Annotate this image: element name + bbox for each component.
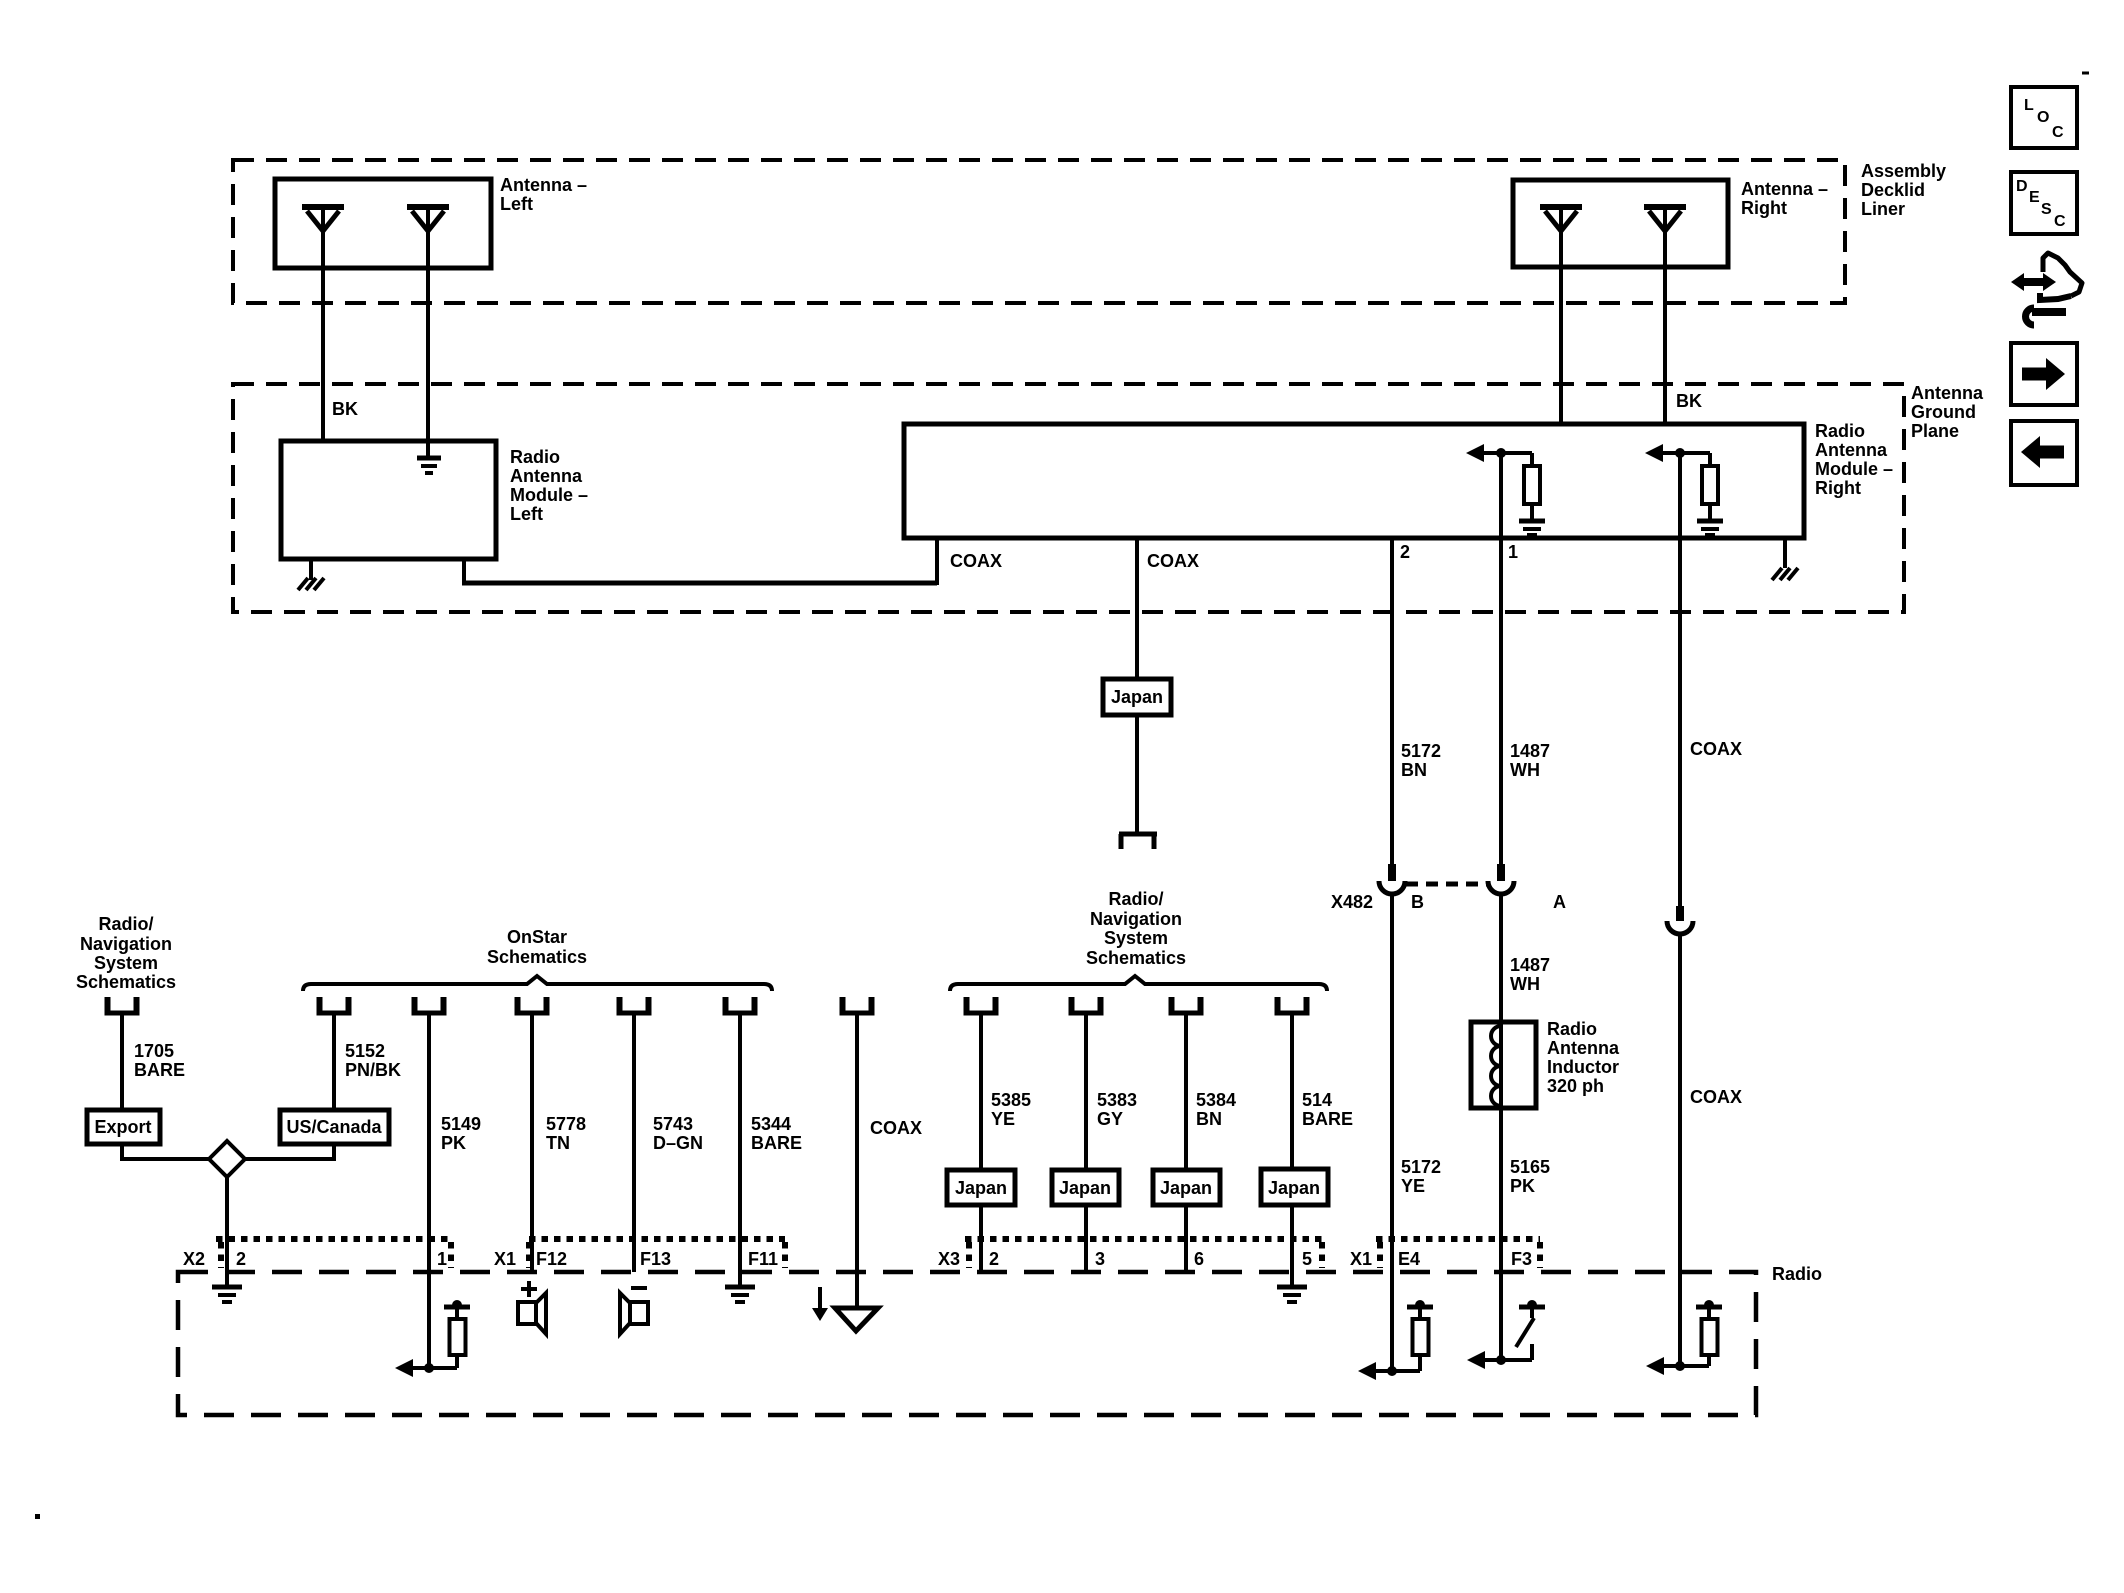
svg-text:A: A	[1553, 892, 1566, 912]
svg-text:Module –: Module –	[1815, 459, 1893, 479]
svg-text:B: B	[1411, 892, 1424, 912]
svg-text:Antenna: Antenna	[1547, 1038, 1620, 1058]
svg-text:X1: X1	[1350, 1249, 1372, 1269]
svg-text:COAX: COAX	[870, 1118, 922, 1138]
svg-text:OnStar: OnStar	[507, 927, 567, 947]
svg-text:5172: 5172	[1401, 1157, 1441, 1177]
svg-text:Antenna –: Antenna –	[500, 175, 587, 195]
svg-text:5743: 5743	[653, 1114, 693, 1134]
svg-text:X1: X1	[494, 1249, 516, 1269]
svg-text:YE: YE	[991, 1109, 1015, 1129]
svg-text:WH: WH	[1510, 974, 1540, 994]
svg-text:Radio/: Radio/	[1108, 889, 1163, 909]
svg-text:Inductor: Inductor	[1547, 1057, 1619, 1077]
svg-text:E4: E4	[1398, 1249, 1420, 1269]
svg-text:1487: 1487	[1510, 741, 1550, 761]
svg-text:Japan: Japan	[1111, 687, 1163, 707]
svg-text:Navigation: Navigation	[80, 934, 172, 954]
svg-text:BN: BN	[1196, 1109, 1222, 1129]
svg-text:X2: X2	[183, 1249, 205, 1269]
svg-text:Left: Left	[500, 194, 533, 214]
svg-text:Antenna: Antenna	[1911, 383, 1984, 403]
svg-text:F3: F3	[1511, 1249, 1532, 1269]
svg-text:BK: BK	[332, 399, 358, 419]
svg-text:Radio: Radio	[510, 447, 560, 467]
svg-text:Radio/: Radio/	[98, 914, 153, 934]
svg-text:System: System	[94, 953, 158, 973]
svg-text:C: C	[2054, 213, 2066, 230]
svg-text:PN/BK: PN/BK	[345, 1060, 401, 1080]
svg-text:Navigation: Navigation	[1090, 909, 1182, 929]
svg-text:System: System	[1104, 928, 1168, 948]
svg-text:Decklid: Decklid	[1861, 180, 1925, 200]
svg-text:Japan: Japan	[955, 1178, 1007, 1198]
svg-text:Assembly: Assembly	[1861, 161, 1946, 181]
svg-text:Right: Right	[1741, 198, 1787, 218]
svg-text:COAX: COAX	[1147, 551, 1199, 571]
svg-text:Antenna: Antenna	[510, 466, 583, 486]
svg-text:F11: F11	[748, 1249, 778, 1269]
svg-text:BARE: BARE	[751, 1133, 802, 1153]
svg-text:Schematics: Schematics	[1086, 948, 1186, 968]
svg-text:Japan: Japan	[1160, 1178, 1212, 1198]
svg-text:Liner: Liner	[1861, 199, 1905, 219]
svg-text:3: 3	[1095, 1249, 1105, 1269]
svg-text:Schematics: Schematics	[487, 947, 587, 967]
svg-text:Japan: Japan	[1059, 1178, 1111, 1198]
svg-text:2: 2	[989, 1249, 999, 1269]
svg-text:US/Canada: US/Canada	[286, 1117, 382, 1137]
svg-text:COAX: COAX	[950, 551, 1002, 571]
svg-text:5344: 5344	[751, 1114, 791, 1134]
svg-text:Radio: Radio	[1815, 421, 1865, 441]
svg-text:BK: BK	[1676, 391, 1702, 411]
svg-text:X3: X3	[938, 1249, 960, 1269]
svg-text:Schematics: Schematics	[76, 972, 176, 992]
svg-text:1705: 1705	[134, 1041, 174, 1061]
svg-text:5149: 5149	[441, 1114, 481, 1134]
svg-text:F13: F13	[640, 1249, 671, 1269]
svg-text:PK: PK	[441, 1133, 466, 1153]
svg-text:S: S	[2041, 201, 2052, 218]
svg-text:514: 514	[1302, 1090, 1332, 1110]
svg-text:Plane: Plane	[1911, 421, 1959, 441]
svg-text:Right: Right	[1815, 478, 1861, 498]
svg-text:Export: Export	[94, 1117, 151, 1137]
svg-text:D–GN: D–GN	[653, 1133, 703, 1153]
svg-text:5165: 5165	[1510, 1157, 1550, 1177]
svg-text:5385: 5385	[991, 1090, 1031, 1110]
svg-text:2: 2	[236, 1249, 246, 1269]
svg-text:TN: TN	[546, 1133, 570, 1153]
svg-text:320 ph: 320 ph	[1547, 1076, 1604, 1096]
svg-text:GY: GY	[1097, 1109, 1123, 1129]
svg-text:BARE: BARE	[134, 1060, 185, 1080]
svg-text:5778: 5778	[546, 1114, 586, 1134]
svg-text:BARE: BARE	[1302, 1109, 1353, 1129]
svg-text:E: E	[2029, 189, 2040, 206]
svg-text:5383: 5383	[1097, 1090, 1137, 1110]
svg-text:1: 1	[437, 1249, 447, 1269]
svg-text:5172: 5172	[1401, 741, 1441, 761]
svg-text:5152: 5152	[345, 1041, 385, 1061]
svg-text:Antenna: Antenna	[1815, 440, 1888, 460]
svg-text:PK: PK	[1510, 1176, 1535, 1196]
svg-text:1: 1	[1508, 542, 1518, 562]
svg-text:Antenna –: Antenna –	[1741, 179, 1828, 199]
svg-text:1487: 1487	[1510, 955, 1550, 975]
svg-text:D: D	[2016, 178, 2028, 195]
svg-text:Ground: Ground	[1911, 402, 1976, 422]
svg-text:YE: YE	[1401, 1176, 1425, 1196]
svg-text:5: 5	[1302, 1249, 1312, 1269]
svg-text:Left: Left	[510, 504, 543, 524]
svg-text:5384: 5384	[1196, 1090, 1236, 1110]
svg-text:COAX: COAX	[1690, 1087, 1742, 1107]
svg-text:Radio: Radio	[1772, 1264, 1822, 1284]
svg-text:Module –: Module –	[510, 485, 588, 505]
svg-text:BN: BN	[1401, 760, 1427, 780]
svg-text:Japan: Japan	[1268, 1178, 1320, 1198]
svg-text:F12: F12	[536, 1249, 567, 1269]
svg-text:COAX: COAX	[1690, 739, 1742, 759]
svg-text:WH: WH	[1510, 760, 1540, 780]
svg-text:6: 6	[1194, 1249, 1204, 1269]
svg-text:C: C	[2052, 124, 2064, 141]
svg-text:L: L	[2024, 97, 2034, 114]
svg-text:Radio: Radio	[1547, 1019, 1597, 1039]
svg-text:X482: X482	[1331, 892, 1373, 912]
svg-text:O: O	[2037, 109, 2049, 126]
svg-text:2: 2	[1400, 542, 1410, 562]
